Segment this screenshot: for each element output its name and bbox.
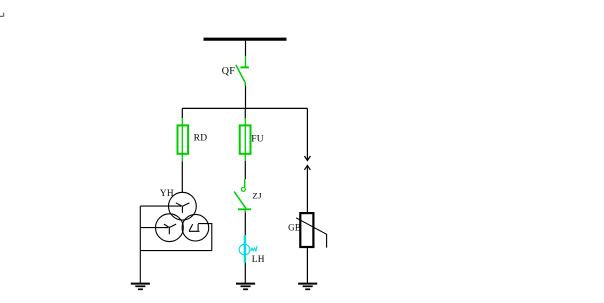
voltage transformer YH	[156, 192, 209, 241]
wire: YH bottom horizontal	[140, 250, 212, 252]
wire: LH to ground	[244, 263, 246, 284]
spark gap upper arrow (down)	[304, 156, 310, 161]
wire: fuse FU to contact ZJ	[244, 161, 246, 179]
wire: YH delta tap to right vertical	[198, 224, 212, 251]
spark gap lower arrow (up)	[304, 165, 310, 170]
wire: YH left vertical	[139, 206, 141, 283]
svg-text:QF: QF	[222, 66, 236, 77]
wire: center drop to fuse FU	[244, 108, 246, 118]
svg-text:GB: GB	[288, 223, 301, 233]
wire: YH primary star tap	[140, 205, 181, 207]
wire: YH secondary star tap	[140, 227, 168, 229]
svg-text:FU: FU	[251, 134, 264, 144]
svg-text:ZJ: ZJ	[252, 191, 262, 201]
surge arrester GB	[296, 213, 327, 248]
wire: left drop to fuse RD	[181, 108, 183, 118]
wire: gap to arrester GB	[306, 165, 308, 213]
current transformer LH	[239, 235, 257, 262]
svg-text:YH: YH	[160, 189, 174, 199]
wire: GB to ground	[306, 247, 308, 283]
busbar	[204, 38, 287, 41]
contact ZJ	[234, 179, 251, 212]
ground (YH)	[131, 284, 150, 290]
svg-text:RD: RD	[194, 133, 208, 143]
wire: busbar to QF	[245, 41, 247, 56]
wire: QF to branch node	[245, 86, 247, 109]
wire: ZJ to CT LH	[244, 212, 246, 235]
stray gray mark top-left corner	[0, 13, 4, 17]
wire: fuse RD to transformer YH	[181, 161, 183, 192]
ground (center branch)	[236, 284, 255, 290]
wire: right branch drop	[306, 108, 308, 160]
fuse RD	[178, 118, 189, 161]
fuse FU	[240, 118, 251, 161]
svg-text:LH: LH	[252, 255, 265, 265]
circuit breaker QF	[236, 56, 249, 86]
ground (arrester)	[298, 284, 317, 290]
wire: branch horizontal bus	[182, 107, 307, 109]
